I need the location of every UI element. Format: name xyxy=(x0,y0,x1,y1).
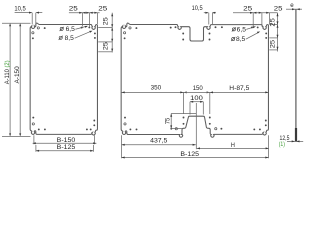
side view plate line xyxy=(295,9,297,142)
dimension 12,5 line xyxy=(287,140,303,142)
label diameter 6,5 (plate 1) xyxy=(60,27,63,30)
svg-text:25: 25 xyxy=(274,6,283,13)
svg-text:25: 25 xyxy=(98,5,108,12)
side view bend thick xyxy=(295,128,297,142)
extension lines 25 25 top (plate 2) xyxy=(252,13,254,27)
holes plate 2 bump area xyxy=(170,128,172,130)
svg-text:8,5: 8,5 xyxy=(236,36,246,43)
holes plate 2 bottom-right corner xyxy=(253,128,255,130)
plate 1 outline xyxy=(30,23,97,135)
holes plate 2 bottom-left corner xyxy=(129,128,131,130)
svg-text:B-125: B-125 xyxy=(57,144,76,151)
dimension A-110 (2) line xyxy=(9,24,11,135)
holes plate 2 top-right corner xyxy=(251,26,253,28)
extension lines 10,5 (plate 2) xyxy=(208,13,210,25)
extension lines 10,5 (plate 1) xyxy=(31,13,33,25)
dimension A-150 line xyxy=(19,24,21,135)
holes plate 2 top-left corner xyxy=(129,27,131,29)
extension lines 25 25 top (plate 1) xyxy=(81,13,83,27)
holes plate 1 right column xyxy=(94,32,96,34)
svg-text:(1): (1) xyxy=(279,141,285,148)
svg-text:25: 25 xyxy=(103,17,110,26)
svg-text:100: 100 xyxy=(190,95,203,102)
svg-text:350: 350 xyxy=(151,85,162,92)
holes plate 2 top middle cutout xyxy=(170,27,172,29)
leader 8,5 (plate 2) xyxy=(246,32,259,39)
label diameter 6,5 (plate 2) xyxy=(232,28,235,31)
svg-text:8,5: 8,5 xyxy=(65,35,75,42)
holes plate 1 bottom row xyxy=(38,128,40,130)
svg-text:B-125: B-125 xyxy=(180,151,199,158)
dimension 10,5 (plate 2) line xyxy=(204,12,208,14)
svg-text:10,5: 10,5 xyxy=(192,5,204,12)
leader 8,5 (plate 1) xyxy=(75,31,92,38)
dimension B-150 (plate 1) xyxy=(33,135,35,144)
dimension 25 25 right side (plate 2) line xyxy=(277,13,279,52)
extension lines bottom (plate 2) xyxy=(121,135,123,158)
bottom edge extension line left xyxy=(2,135,31,137)
svg-text:A-110 (2): A-110 (2) xyxy=(4,60,11,84)
svg-text:6,5: 6,5 xyxy=(66,26,76,33)
svg-text:H-87,5: H-87,5 xyxy=(229,85,250,92)
svg-text:150: 150 xyxy=(193,85,204,92)
leader 6,5 (plate 2) xyxy=(246,27,254,30)
svg-text:75: 75 xyxy=(165,117,172,124)
svg-text:25: 25 xyxy=(243,6,253,13)
center line (plate 2) xyxy=(195,103,197,149)
label diameter 8,5 (plate 2) xyxy=(232,37,235,40)
svg-text:25: 25 xyxy=(103,41,110,50)
extension lines 25 25 right side (plate 2) xyxy=(269,24,277,26)
svg-text:437,5: 437,5 xyxy=(150,138,168,145)
dimension e line xyxy=(286,8,302,10)
dimension 25 25 top (plate 1) line xyxy=(69,12,100,14)
label diameter 8,5 (plate 1) xyxy=(59,36,62,39)
svg-text:H: H xyxy=(231,142,235,149)
top edge extension line left xyxy=(2,22,31,24)
svg-text:25: 25 xyxy=(270,18,277,27)
svg-text:B-150: B-150 xyxy=(57,137,76,144)
svg-text:6,5: 6,5 xyxy=(237,26,247,33)
svg-text:e: e xyxy=(290,2,294,9)
svg-text:10,5: 10,5 xyxy=(14,6,26,13)
dimension B-125 (plate 1) xyxy=(35,145,37,152)
plate 2 outline xyxy=(121,23,268,137)
dimension 10,5 (plate 1) line xyxy=(15,12,32,14)
holes plate 1 top row xyxy=(37,27,39,29)
dimension 25 25 right side (plate 1) line xyxy=(111,13,113,53)
holes plate 1 bottom right column xyxy=(93,120,95,122)
dimension 25 25 top (plate 2) line xyxy=(233,12,278,14)
leader 6,5 (plate 1) xyxy=(75,26,86,29)
holes plate 1 left column xyxy=(32,32,34,34)
svg-text:25: 25 xyxy=(69,5,79,12)
holes plate 1 bottom left column xyxy=(32,117,34,119)
extension lines 350/150 (plate 2) xyxy=(183,92,185,114)
extension lines 100 (plate 2) xyxy=(189,102,191,115)
extension lines 25 25 right side (plate 1) xyxy=(98,26,112,28)
svg-text:A-150: A-150 xyxy=(14,66,21,84)
svg-text:25: 25 xyxy=(270,39,277,48)
